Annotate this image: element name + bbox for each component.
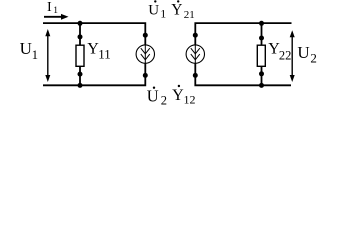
svg-text:11: 11	[98, 47, 111, 62]
svg-text:1: 1	[32, 48, 38, 62]
svg-text:I: I	[47, 0, 52, 15]
svg-text:2: 2	[161, 94, 167, 108]
svg-text:1: 1	[53, 6, 58, 16]
svg-text:21: 21	[184, 9, 195, 21]
svg-text:1: 1	[160, 6, 166, 20]
svg-text:U: U	[147, 87, 159, 106]
svg-text:2: 2	[310, 51, 317, 66]
svg-text:Y: Y	[172, 87, 184, 104]
svg-text:U: U	[20, 39, 32, 58]
svg-text:Y: Y	[171, 2, 182, 19]
svg-text:U: U	[297, 43, 309, 62]
svg-text:22: 22	[279, 48, 292, 62]
svg-text:12: 12	[184, 93, 196, 107]
svg-text:U: U	[148, 3, 159, 19]
